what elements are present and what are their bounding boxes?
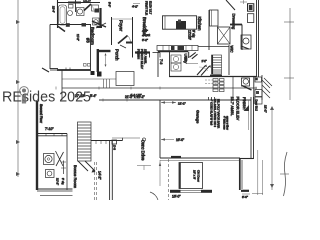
svg-text:21'-2": 21'-2"	[178, 102, 186, 106]
svg-text:15.7 AMSL: 15.7 AMSL	[144, 49, 148, 64]
svg-text:Garage: Garage	[196, 110, 201, 124]
svg-text:12'x20': 12'x20'	[188, 30, 192, 40]
svg-text:15.7' AMSL: 15.7' AMSL	[230, 97, 234, 116]
svg-text:14'-2": 14'-2"	[98, 171, 102, 180]
svg-text:7'-10": 7'-10"	[45, 127, 54, 131]
svg-text:7'-6: 7'-6	[159, 59, 163, 64]
svg-text:Foyer: Foyer	[119, 20, 124, 32]
svg-text:W1.4xW1.4 WWM ON 6: W1.4xW1.4 WWM ON 6	[213, 99, 217, 128]
svg-text:Bonus Room: Bonus Room	[73, 165, 78, 189]
svg-text:21'-2": 21'-2"	[264, 105, 268, 113]
svg-text:FINISH: FINISH	[242, 97, 246, 110]
svg-text:apron w fiber: apron w fiber	[225, 116, 228, 130]
svg-text:4" thick conc: 4" thick conc	[222, 116, 225, 130]
svg-text:FLOOR ELEV: FLOOR ELEV	[236, 97, 240, 121]
svg-text:#3: #3	[86, 38, 91, 43]
svg-text:FIRST FLR: FIRST FLR	[145, 1, 149, 15]
svg-text:9' clg: 9' clg	[61, 178, 65, 185]
svg-text:REsides 2025: REsides 2025	[2, 90, 91, 106]
svg-text:4'-6 1/2": 4'-6 1/2"	[130, 94, 142, 98]
svg-text:PORCH ELEV: PORCH ELEV	[140, 49, 144, 70]
svg-text:MIL POLY VAPOR BARR: MIL POLY VAPOR BARR	[217, 99, 221, 128]
svg-text:OH Door: OH Door	[197, 170, 201, 182]
svg-text:4" CONC SLAB W 6x6: 4" CONC SLAB W 6x6	[210, 99, 214, 126]
svg-text:ELEV 15.7: ELEV 15.7	[149, 1, 153, 15]
svg-text:WIC: WIC	[229, 46, 233, 53]
svg-text:Porch: Porch	[114, 49, 119, 61]
svg-text:11'-2": 11'-2"	[76, 34, 80, 41]
svg-text:Second Floor: Second Floor	[39, 104, 43, 124]
svg-text:16'-0": 16'-0"	[172, 195, 181, 199]
svg-text:21'-2": 21'-2"	[56, 178, 60, 185]
svg-text:3'-2": 3'-2"	[142, 38, 148, 42]
svg-text:10'-2": 10'-2"	[83, 0, 91, 4]
svg-text:2'-8: 2'-8	[113, 145, 117, 150]
svg-text:2'-1": 2'-1"	[202, 59, 207, 63]
svg-text:9' clg: 9' clg	[192, 30, 196, 38]
svg-text:Breakfast: Breakfast	[142, 17, 147, 36]
svg-text:16' x 8': 16' x 8'	[193, 170, 197, 180]
svg-text:8'-0": 8'-0"	[242, 195, 248, 199]
svg-text:5'-8": 5'-8"	[108, 2, 112, 7]
svg-text:Kitchen: Kitchen	[197, 17, 202, 32]
svg-text:Utility: Utility	[183, 54, 188, 64]
svg-text:22'-4": 22'-4"	[51, 6, 55, 13]
svg-text:16'-0": 16'-0"	[176, 138, 184, 142]
svg-text:Dressing: Dressing	[231, 14, 236, 30]
svg-text:FINISH: FINISH	[137, 49, 141, 59]
svg-text:Door 13.2: Door 13.2	[255, 100, 259, 112]
svg-text:4'-2": 4'-2"	[132, 5, 138, 9]
